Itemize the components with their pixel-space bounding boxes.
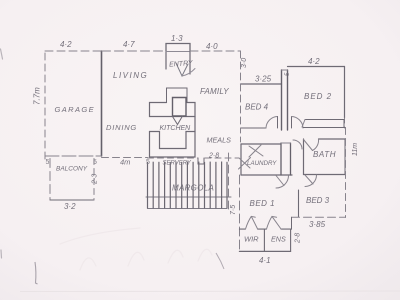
svg-text:GARAGE: GARAGE: [55, 105, 96, 114]
svg-text:1·3: 1·3: [171, 34, 183, 43]
svg-text:BATH: BATH: [313, 150, 336, 159]
svg-text:BED 3: BED 3: [306, 196, 330, 205]
svg-text:5: 5: [46, 159, 50, 166]
svg-text:2·8: 2·8: [208, 153, 219, 160]
svg-text:ENS: ENS: [271, 235, 286, 244]
svg-text:3·25: 3·25: [255, 75, 272, 84]
svg-text:4·0: 4·0: [206, 42, 218, 51]
svg-text:WIR: WIR: [244, 235, 259, 244]
svg-text:DINING: DINING: [106, 123, 137, 132]
svg-text:5: 5: [146, 159, 150, 166]
svg-text:SERVERY: SERVERY: [163, 161, 192, 167]
svg-text:4·1: 4·1: [259, 256, 271, 265]
svg-text:11m: 11m: [352, 143, 359, 156]
svg-text:4·2: 4·2: [308, 57, 320, 66]
svg-text:4·2: 4·2: [60, 40, 72, 49]
svg-text:KITCHEN: KITCHEN: [160, 125, 192, 132]
svg-text:BED 4: BED 4: [245, 103, 269, 112]
svg-text:LIVING: LIVING: [113, 71, 148, 80]
svg-text:4m: 4m: [120, 158, 130, 167]
svg-text:FAMILY: FAMILY: [200, 87, 229, 96]
svg-text:7.7m: 7.7m: [33, 87, 42, 105]
svg-text:4·7: 4·7: [123, 40, 135, 49]
svg-text:BALCONY: BALCONY: [56, 166, 88, 173]
svg-text:3·85: 3·85: [309, 220, 326, 229]
svg-text:LAUNDRY: LAUNDRY: [247, 160, 277, 167]
svg-text:2·3: 2·3: [92, 174, 99, 185]
svg-text:MEALS: MEALS: [207, 136, 232, 145]
svg-text:2·8: 2·8: [295, 233, 302, 244]
svg-text:7·5: 7·5: [230, 205, 237, 215]
svg-text:5: 5: [93, 159, 97, 166]
svg-text:MARGOLA: MARGOLA: [172, 184, 214, 193]
svg-text:BED 1: BED 1: [250, 199, 276, 208]
svg-text:BED 2: BED 2: [304, 92, 332, 101]
svg-text:3·0: 3·0: [241, 58, 248, 68]
svg-text:3·2: 3·2: [64, 202, 76, 211]
